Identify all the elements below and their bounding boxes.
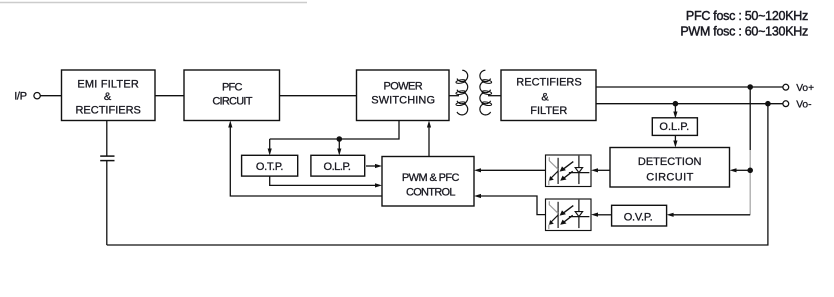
svg-text:FILTER: FILTER <box>530 105 567 117</box>
wire transformer to RECTIFIERS <box>488 95 501 97</box>
svg-text:CIRCUIT: CIRCUIT <box>212 96 252 108</box>
node Vo- sense <box>765 101 771 107</box>
block OLP output <box>652 118 697 136</box>
wire PFC to POWER SWITCHING <box>280 95 357 97</box>
block PWM & PFC CONTROL <box>382 157 474 207</box>
block RECTIFIERS & FILTER <box>501 70 596 121</box>
svg-text:O.L.P.: O.L.P. <box>659 121 689 133</box>
node OTP/OLP branch <box>337 136 343 142</box>
label PFC fosc <box>686 9 808 23</box>
optocoupler U2 light arrows <box>560 206 574 225</box>
svg-text:POWER: POWER <box>384 81 423 93</box>
svg-text:RECTIFIERS: RECTIFIERS <box>516 76 581 88</box>
wire OLP tap arrow <box>673 104 677 119</box>
svg-text:&: & <box>104 91 112 103</box>
svg-text:&: & <box>541 91 549 103</box>
wire I/P to EMI <box>40 95 61 97</box>
svg-text:RECTIFIERS: RECTIFIERS <box>75 105 140 117</box>
svg-text:I/P: I/P <box>14 90 26 102</box>
svg-text:EMI FILTER: EMI FILTER <box>77 78 139 90</box>
wire PWM to POWER SWITCHING arrow <box>427 121 431 157</box>
wire OLP to DETECTION arrow <box>673 136 677 148</box>
svg-text:O.T.P.: O.T.P. <box>256 161 284 173</box>
wire PWM to PFC feed <box>228 121 382 197</box>
svg-text:O.L.P.: O.L.P. <box>323 161 350 173</box>
wire OVP to opto2 arrow <box>591 213 612 217</box>
optocoupler U2 phototransistor <box>549 201 558 229</box>
optocoupler U2 LED <box>569 200 590 228</box>
wire sense to OVP arrow <box>667 213 751 217</box>
optocoupler U1 phototransistor <box>549 157 558 185</box>
wire arrow into OLP <box>337 139 341 156</box>
node OLP tap <box>673 101 679 107</box>
block EMI FILTER & RECTIFIERS <box>62 70 156 121</box>
wire POWER SWITCHING to transformer primary <box>449 95 459 97</box>
block POWER SWITCHING <box>357 70 450 121</box>
wire POWER SWITCHING down distribution <box>270 121 399 140</box>
block OVP <box>612 205 667 226</box>
wire OTP to PWM arrow <box>270 177 382 188</box>
svg-text:SWITCHING: SWITCHING <box>371 95 435 107</box>
svg-text:CIRCUIT: CIRCUIT <box>646 172 693 184</box>
label Vo+ <box>796 83 814 94</box>
terminal Vo+ <box>783 84 789 90</box>
transformer T1 secondary winding <box>480 70 492 115</box>
wire DETECTION to opto1 arrow <box>591 168 610 172</box>
optocoupler U1 LED <box>569 156 590 184</box>
wire EMI to capacitor <box>106 121 108 156</box>
terminal Vo- <box>783 101 789 107</box>
block DETECTION CIRCUIT <box>610 148 730 188</box>
block PFC CIRCUIT <box>184 70 280 121</box>
wire opto2 to PWM arrow <box>474 194 546 215</box>
wire Vo+ rail <box>596 86 783 88</box>
capacitor C1 <box>100 156 114 245</box>
wire Vo- rail <box>596 103 783 105</box>
svg-text:CONTROL: CONTROL <box>406 187 455 199</box>
wire arrow into OTP <box>268 139 272 156</box>
optocoupler U2 box <box>546 199 592 231</box>
svg-text:PFC fosc : 50~120KHz: PFC fosc : 50~120KHz <box>686 9 808 23</box>
node detection feed <box>747 168 753 174</box>
wire Vo+ sense vertical <box>749 87 751 215</box>
terminal I/P <box>34 93 40 99</box>
svg-text:PFC: PFC <box>222 81 242 93</box>
svg-text:PWM fosc : 60~130KHz: PWM fosc : 60~130KHz <box>680 24 808 38</box>
block OTP <box>242 155 298 176</box>
label Vo- <box>796 99 811 110</box>
wire EMI to PFC <box>155 95 184 97</box>
wire sense to DETECTION arrow <box>730 168 751 172</box>
optocoupler U1 light arrows <box>560 162 574 181</box>
label I/P <box>14 90 26 102</box>
svg-text:DETECTION: DETECTION <box>638 156 702 168</box>
wire Vo- return vertical <box>107 104 768 245</box>
label PWM fosc <box>680 24 808 38</box>
svg-text:PWM & PFC: PWM & PFC <box>402 172 460 184</box>
svg-text:Vo+: Vo+ <box>796 83 814 94</box>
svg-text:O.V.P.: O.V.P. <box>624 212 653 224</box>
wire opto1 to PWM arrow <box>474 168 546 172</box>
top rule <box>0 2 307 4</box>
node on Vo+ rail <box>747 84 753 90</box>
optocoupler U1 box <box>546 155 592 187</box>
wire OLP to PWM arrow <box>366 164 382 168</box>
transformer T1 primary winding <box>456 70 468 115</box>
block OLP primary <box>311 155 365 176</box>
svg-text:Vo-: Vo- <box>796 99 811 110</box>
